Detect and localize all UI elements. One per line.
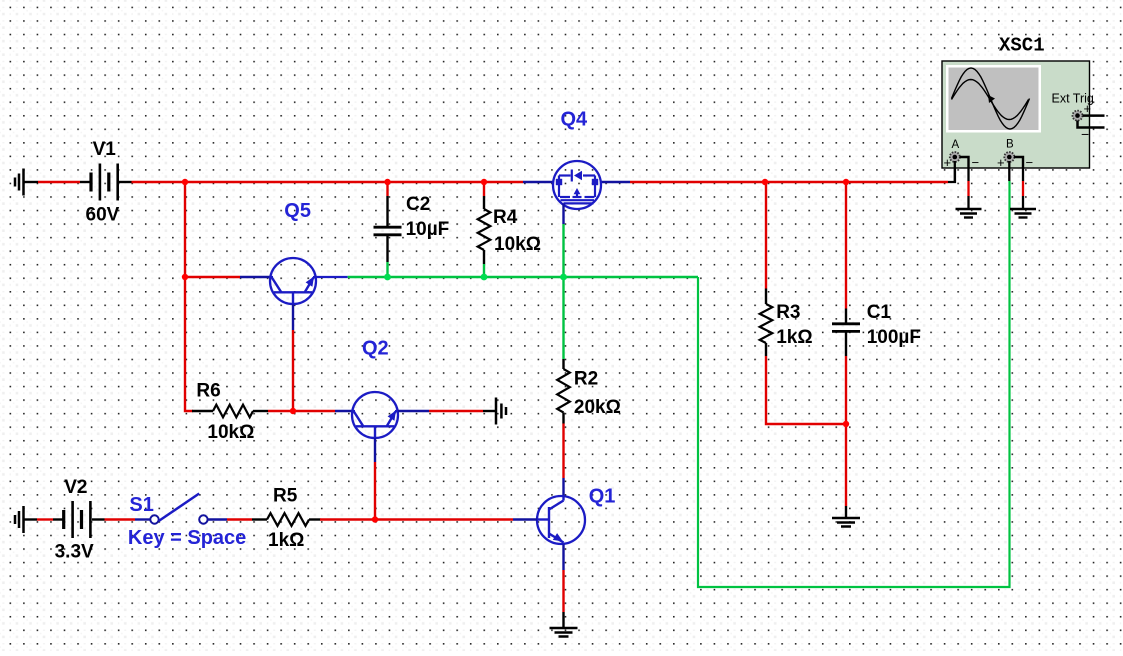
wire B- down bbox=[1022, 168, 1024, 181]
pin Q4 source stub bbox=[523, 181, 553, 183]
svg-text:B: B bbox=[1006, 138, 1014, 150]
svg-text:R3: R3 bbox=[776, 302, 800, 323]
pin Q2 base stub bbox=[335, 410, 352, 412]
pin R6 right lead bbox=[253, 410, 268, 412]
pin R2 top lead bbox=[562, 359, 564, 369]
pin V2 pos lead bbox=[92, 518, 105, 520]
wire V1 to Q4 (top rail) bbox=[132, 181, 524, 183]
wire green to scope B bbox=[698, 181, 1010, 587]
ground at V1 bbox=[15, 169, 24, 196]
svg-text:S1: S1 bbox=[129, 494, 153, 516]
svg-text:1kΩ: 1kΩ bbox=[268, 530, 304, 551]
pin Q2 emitter stub bbox=[374, 438, 376, 462]
svg-text:−: − bbox=[1026, 155, 1034, 170]
capacitor C2 bbox=[374, 227, 402, 235]
pin R4 top lead bbox=[483, 196, 485, 209]
svg-text:A: A bbox=[952, 139, 960, 151]
ground at Q1 bbox=[550, 628, 578, 637]
ground at V2 bbox=[15, 506, 24, 533]
wire rail to C2 bbox=[386, 182, 388, 196]
pin Q1 emitter stub bbox=[562, 545, 564, 571]
pin Q1 collector stub bbox=[562, 478, 564, 496]
svg-text:3.3V: 3.3V bbox=[55, 542, 94, 563]
junction rail/R3 bbox=[762, 179, 768, 185]
svg-text:C1: C1 bbox=[867, 302, 892, 323]
wire into scope A+ bbox=[948, 158, 955, 182]
junction R6/Q5/Q2 bbox=[290, 408, 296, 414]
wire V2 to S1 bbox=[105, 518, 136, 520]
wire Q2 down to bottom rail bbox=[374, 462, 376, 517]
svg-text:+: + bbox=[1084, 101, 1092, 116]
wire C2 to green bus bbox=[386, 262, 388, 277]
junction Q5 base branch bbox=[182, 274, 188, 280]
wire V1 ground lead bbox=[24, 181, 39, 183]
pin R5 left lead bbox=[252, 518, 267, 520]
pin Q5 base stub bbox=[292, 305, 294, 331]
junction node rail/Q5-R6 branch bbox=[182, 179, 188, 185]
wire R2 to Q1 collector bbox=[562, 424, 564, 479]
svg-text:Key = Space: Key = Space bbox=[128, 527, 246, 549]
pin C1 top lead bbox=[845, 309, 847, 323]
wire A- red segment bbox=[967, 181, 969, 196]
resistor R2 bbox=[557, 369, 570, 413]
wire R4 to green bus bbox=[483, 264, 485, 277]
junction rail/C2 bbox=[384, 179, 390, 185]
junction green R4 bbox=[481, 274, 488, 281]
transistor Q2 bbox=[352, 392, 398, 439]
junction R3/C1 bbox=[843, 421, 849, 427]
svg-text:100µF: 100µF bbox=[867, 327, 921, 348]
wire green bus bbox=[348, 276, 698, 278]
pin Q4 gate stub bbox=[562, 203, 564, 224]
pin C1 bottom lead bbox=[845, 333, 847, 357]
wire to ground bbox=[845, 506, 847, 518]
wire B- red segment bbox=[1022, 181, 1024, 196]
svg-text:R2: R2 bbox=[574, 369, 598, 390]
svg-text:Q5: Q5 bbox=[284, 200, 311, 222]
ground at scope A bbox=[956, 209, 982, 218]
wire Q4 gate to green bus bbox=[562, 224, 564, 277]
Ext Trig terminal bbox=[1073, 111, 1083, 121]
wire down to R6 bbox=[185, 277, 193, 411]
svg-text:+: + bbox=[944, 155, 952, 170]
wire R5 to Q1 base bbox=[320, 518, 513, 520]
wire A+ down to rail bbox=[954, 161, 956, 182]
switch S1 bbox=[150, 494, 207, 524]
pin R2 bottom lead bbox=[562, 413, 564, 424]
wire B- to ground bbox=[1022, 196, 1024, 209]
svg-text:10kΩ: 10kΩ bbox=[494, 234, 541, 255]
resistor R6 bbox=[213, 405, 253, 418]
wire green bus to R2 bbox=[562, 277, 564, 359]
wire V2 ground lead bbox=[24, 518, 38, 520]
wire R6 to Q2 bbox=[295, 410, 335, 412]
svg-text:+: + bbox=[997, 155, 1005, 170]
pin R5 right lead bbox=[309, 518, 321, 520]
svg-text:R6: R6 bbox=[196, 381, 220, 402]
svg-text:R5: R5 bbox=[273, 486, 298, 507]
transistor Q5 bbox=[270, 258, 316, 305]
wire rail down to C1 bbox=[845, 182, 847, 309]
pin Q2 right stub bbox=[398, 410, 429, 412]
oscilloscope XSC1 bbox=[942, 61, 1090, 168]
wire Q2 to ground bbox=[429, 410, 483, 412]
wire V1 neg lead bbox=[80, 181, 90, 183]
svg-text:C2: C2 bbox=[406, 194, 430, 215]
wire Q5 base down bbox=[292, 330, 294, 409]
pin Q1 base stub bbox=[513, 518, 537, 520]
wire C1 down to ground bbox=[845, 356, 847, 506]
wire A- to ground bbox=[967, 196, 969, 209]
svg-text:Q4: Q4 bbox=[561, 109, 589, 131]
wire S1 to R5 bbox=[227, 518, 252, 520]
transistor Q1 bbox=[537, 496, 585, 545]
pin V2 neg lead bbox=[53, 518, 63, 520]
junction Q2 emitter/bottom rail bbox=[372, 516, 378, 522]
Ext Trig plus wire bbox=[1083, 114, 1105, 117]
A minus wire bbox=[960, 157, 969, 168]
svg-text:1kΩ: 1kΩ bbox=[776, 327, 812, 348]
pin R6 left lead bbox=[192, 410, 213, 412]
resistor R5 bbox=[267, 513, 309, 526]
svg-text:10µF: 10µF bbox=[406, 219, 450, 240]
wire R3 to C1 node bbox=[766, 356, 844, 424]
wire to Q5 base bbox=[185, 276, 240, 278]
junction rail/C1 bbox=[843, 179, 849, 185]
pin R3 bottom lead bbox=[765, 343, 767, 356]
svg-text:−: − bbox=[972, 155, 980, 170]
wire node1 down to Q5 level bbox=[184, 182, 186, 277]
wire ground to V2 bbox=[37, 518, 53, 520]
capacitor C1 bbox=[832, 324, 860, 332]
pin S1 left stub bbox=[135, 518, 150, 520]
svg-text:R4: R4 bbox=[493, 207, 518, 228]
wire rail down to R3 bbox=[765, 182, 767, 289]
svg-text:V1: V1 bbox=[93, 139, 117, 160]
battery V2 bbox=[64, 501, 91, 538]
battery V1 bbox=[91, 164, 118, 201]
svg-text:−: − bbox=[1081, 126, 1089, 142]
Ext Trig minus wire bbox=[1078, 121, 1105, 128]
resistor R3 bbox=[760, 304, 773, 343]
resistor R4 bbox=[478, 209, 491, 250]
svg-text:20kΩ: 20kΩ bbox=[574, 397, 621, 418]
channel B terminal bbox=[1004, 152, 1014, 162]
junction rail/R4 bbox=[481, 179, 487, 185]
pin C2 top lead bbox=[386, 196, 388, 226]
svg-text:Q1: Q1 bbox=[589, 486, 616, 508]
wire R6 to junction bbox=[268, 410, 291, 412]
svg-text:Q2: Q2 bbox=[362, 338, 389, 360]
transistor Q4 (MOSFET) bbox=[553, 161, 601, 209]
wire A- down bbox=[967, 168, 969, 181]
svg-text:10kΩ: 10kΩ bbox=[207, 422, 254, 443]
pin Q4 drain stub bbox=[601, 181, 630, 183]
svg-text:V2: V2 bbox=[64, 477, 87, 498]
svg-text:60V: 60V bbox=[86, 205, 120, 226]
ground at Q2 bbox=[496, 398, 506, 425]
wire ground lead bbox=[483, 410, 496, 412]
ground below C1 bbox=[832, 518, 860, 527]
pin R3 top lead bbox=[765, 289, 767, 305]
wire to ground bbox=[562, 612, 564, 628]
wire B+ down (meets green) bbox=[1008, 161, 1010, 181]
pin C2 bottom lead bbox=[386, 236, 388, 262]
wire ground to V1 bbox=[38, 181, 80, 183]
ground at scope B bbox=[1010, 209, 1036, 218]
B minus wire bbox=[1014, 157, 1023, 168]
pin Q5 left stub bbox=[240, 276, 271, 278]
channel A terminal bbox=[950, 152, 960, 162]
junction green gate/R2 bbox=[560, 274, 567, 281]
wire Q4 to scope (top rail) bbox=[630, 181, 948, 183]
wire rail to R4 bbox=[483, 182, 485, 196]
pin R4 bottom lead bbox=[483, 250, 485, 264]
wire Q1 emitter down bbox=[562, 570, 564, 612]
svg-text:XSC1: XSC1 bbox=[999, 35, 1045, 57]
junction green C2 bbox=[384, 274, 391, 281]
pin S1 right stub bbox=[208, 518, 227, 520]
wire V1 pos lead bbox=[119, 181, 132, 183]
pin Q5 right stub bbox=[316, 276, 348, 278]
